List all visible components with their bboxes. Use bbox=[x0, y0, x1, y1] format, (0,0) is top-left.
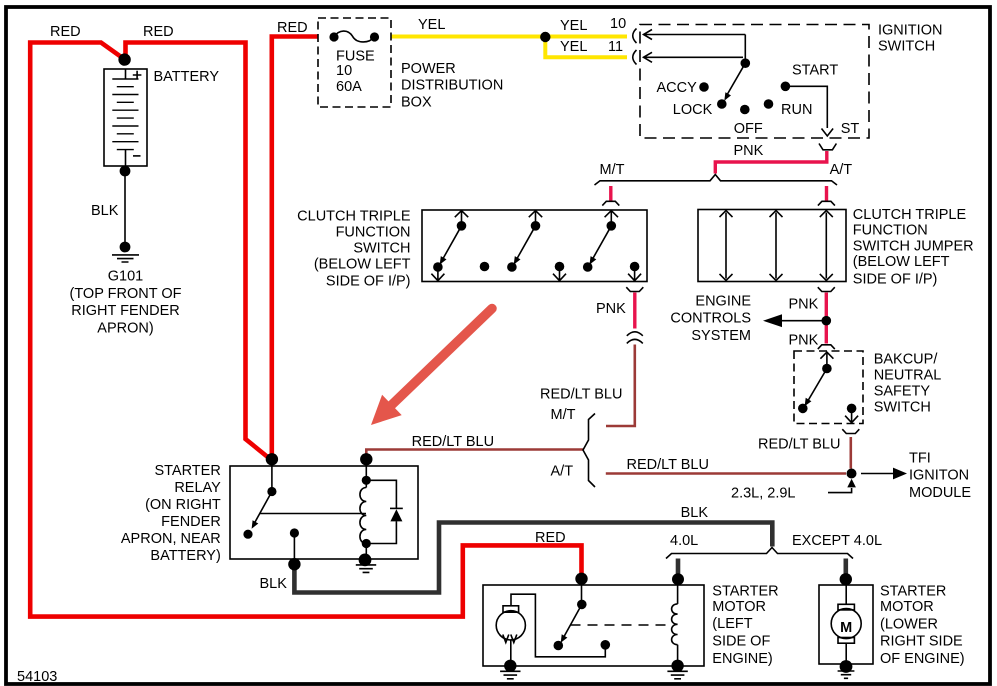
svg-text:RED/LT BLU: RED/LT BLU bbox=[412, 434, 494, 450]
svg-text:FENDER: FENDER bbox=[161, 514, 221, 530]
svg-text:RIGHT FENDER: RIGHT FENDER bbox=[71, 303, 180, 319]
svg-text:MODULE: MODULE bbox=[909, 485, 971, 501]
svg-text:M/T: M/T bbox=[551, 407, 576, 423]
svg-text:10: 10 bbox=[336, 63, 352, 79]
svg-text:10: 10 bbox=[610, 16, 626, 32]
svg-text:SIDE OF I/P): SIDE OF I/P) bbox=[326, 274, 411, 290]
svg-text:PNK: PNK bbox=[789, 297, 819, 313]
svg-text:A/T: A/T bbox=[551, 464, 574, 480]
svg-text:STARTER: STARTER bbox=[712, 584, 778, 600]
svg-text:(TOP FRONT OF: (TOP FRONT OF bbox=[70, 286, 182, 302]
svg-text:APRON): APRON) bbox=[97, 320, 153, 336]
svg-text:SWITCH: SWITCH bbox=[878, 39, 935, 55]
svg-text:54103: 54103 bbox=[17, 669, 57, 685]
svg-text:RED/LT BLU: RED/LT BLU bbox=[540, 387, 622, 403]
svg-text:SAFETY: SAFETY bbox=[874, 384, 931, 400]
svg-text:RUN: RUN bbox=[781, 102, 812, 118]
svg-text:11: 11 bbox=[608, 39, 623, 55]
svg-text:STARTER: STARTER bbox=[880, 584, 946, 600]
svg-text:2.3L, 2.9L: 2.3L, 2.9L bbox=[731, 486, 796, 502]
svg-text:RED: RED bbox=[143, 24, 174, 40]
svg-text:M/T: M/T bbox=[600, 162, 625, 178]
svg-text:M: M bbox=[840, 620, 852, 636]
svg-text:BAKCUP/: BAKCUP/ bbox=[874, 352, 939, 368]
svg-text:YEL: YEL bbox=[560, 18, 587, 34]
svg-text:START: START bbox=[792, 63, 838, 79]
svg-text:EXCEPT 4.0L: EXCEPT 4.0L bbox=[792, 533, 882, 549]
svg-text:LOCK: LOCK bbox=[673, 102, 713, 118]
svg-text:PNK: PNK bbox=[596, 301, 626, 317]
svg-text:ACCY: ACCY bbox=[657, 80, 698, 96]
svg-text:(LEFT: (LEFT bbox=[712, 616, 752, 632]
svg-text:(LOWER: (LOWER bbox=[880, 616, 938, 632]
svg-text:(BELOW LEFT: (BELOW LEFT bbox=[314, 256, 411, 272]
svg-text:IGNITION: IGNITION bbox=[878, 23, 942, 39]
svg-text:ENGINE: ENGINE bbox=[695, 294, 751, 310]
svg-text:STARTER: STARTER bbox=[154, 463, 220, 479]
svg-text:PNK: PNK bbox=[789, 333, 819, 349]
svg-text:ST: ST bbox=[841, 121, 860, 137]
svg-text:SIDE OF: SIDE OF bbox=[712, 634, 770, 650]
svg-text:YEL: YEL bbox=[418, 17, 445, 33]
svg-text:CONTROLS: CONTROLS bbox=[670, 310, 751, 326]
svg-text:PNK: PNK bbox=[734, 143, 764, 159]
svg-text:BLK: BLK bbox=[681, 505, 709, 521]
svg-text:BATTERY): BATTERY) bbox=[150, 548, 220, 564]
svg-text:RELAY: RELAY bbox=[174, 480, 221, 496]
svg-text:SWITCH JUMPER: SWITCH JUMPER bbox=[853, 238, 974, 254]
svg-text:G101: G101 bbox=[108, 268, 143, 284]
svg-text:FUNCTION: FUNCTION bbox=[853, 223, 928, 239]
svg-text:IGNITON: IGNITON bbox=[909, 468, 969, 484]
svg-text:A/T: A/T bbox=[830, 162, 853, 178]
svg-text:APRON, NEAR: APRON, NEAR bbox=[121, 531, 221, 547]
svg-text:SWITCH: SWITCH bbox=[353, 240, 410, 256]
svg-text:RED: RED bbox=[277, 20, 308, 36]
svg-text:CLUTCH TRIPLE: CLUTCH TRIPLE bbox=[297, 208, 411, 224]
svg-text:60A: 60A bbox=[336, 79, 362, 95]
svg-text:RED: RED bbox=[535, 530, 566, 546]
svg-text:TFI: TFI bbox=[909, 451, 931, 467]
svg-text:MOTOR: MOTOR bbox=[712, 599, 766, 615]
svg-text:(ON RIGHT: (ON RIGHT bbox=[145, 497, 221, 513]
svg-text:SWITCH: SWITCH bbox=[874, 400, 931, 416]
svg-text:RED/LT BLU: RED/LT BLU bbox=[758, 437, 840, 453]
svg-text:SYSTEM: SYSTEM bbox=[691, 328, 751, 344]
svg-text:BOX: BOX bbox=[401, 95, 432, 111]
svg-text:BLK: BLK bbox=[260, 576, 288, 592]
svg-text:RED/LT BLU: RED/LT BLU bbox=[627, 457, 709, 473]
svg-text:NEUTRAL: NEUTRAL bbox=[874, 368, 942, 384]
svg-text:BLK: BLK bbox=[91, 203, 119, 219]
svg-text:MOTOR: MOTOR bbox=[880, 599, 934, 615]
svg-text:SIDE OF I/P): SIDE OF I/P) bbox=[853, 272, 938, 288]
svg-text:OF ENGINE): OF ENGINE) bbox=[880, 651, 965, 667]
svg-text:DISTRIBUTION: DISTRIBUTION bbox=[401, 77, 503, 93]
svg-text:BATTERY: BATTERY bbox=[154, 69, 220, 85]
svg-text:ENGINE): ENGINE) bbox=[712, 651, 772, 667]
svg-text:4.0L: 4.0L bbox=[670, 533, 698, 549]
svg-text:RED: RED bbox=[50, 24, 81, 40]
svg-text:YEL: YEL bbox=[560, 39, 587, 55]
svg-text:POWER: POWER bbox=[401, 61, 456, 77]
svg-text:OFF: OFF bbox=[734, 121, 763, 137]
svg-text:CLUTCH TRIPLE: CLUTCH TRIPLE bbox=[853, 207, 967, 223]
svg-text:FUNCTION: FUNCTION bbox=[336, 224, 411, 240]
svg-text:RIGHT SIDE: RIGHT SIDE bbox=[880, 634, 963, 650]
svg-text:(BELOW LEFT: (BELOW LEFT bbox=[853, 254, 950, 270]
